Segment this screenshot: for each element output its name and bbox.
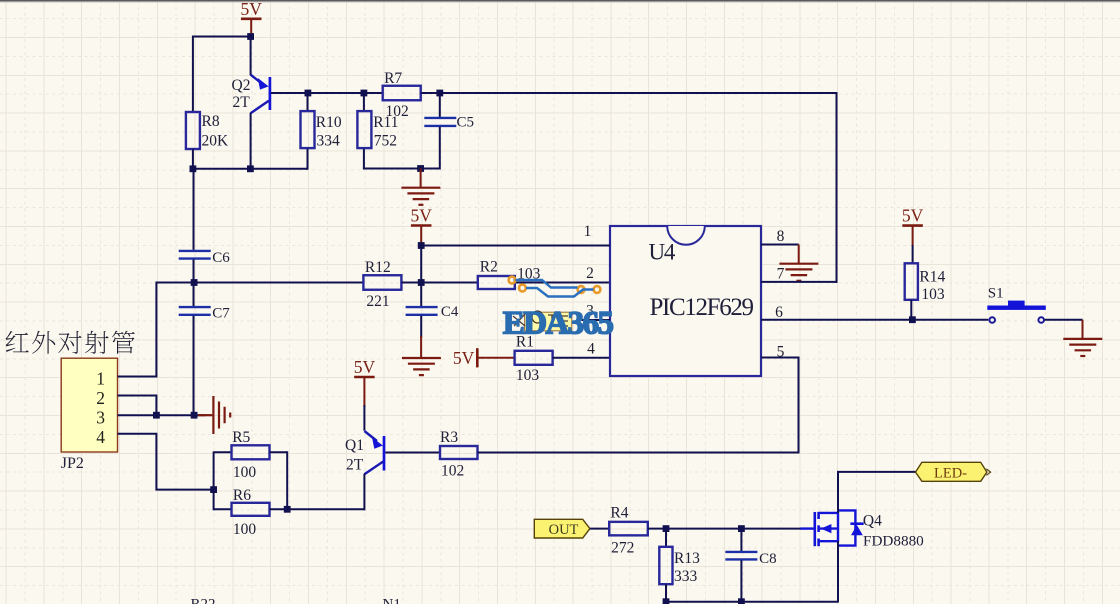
svg-text:5V: 5V [241,0,263,19]
svg-text:334: 334 [317,133,341,150]
node junction R12 R2 C4 [418,279,425,286]
pin 2 label [586,265,594,282]
transistor Q2 [251,37,308,170]
wire R8 top lead [192,36,194,113]
svg-text:Q1: Q1 [345,437,364,454]
svg-text:221: 221 [366,293,389,310]
svg-text:R7: R7 [384,70,402,87]
wire C4 bottom lead [420,316,422,338]
svg-text:R3: R3 [440,429,458,446]
label S1 [988,286,1004,302]
label Q1 [345,437,364,454]
wire C8 top lead [740,529,742,551]
pin 7 label [777,266,785,283]
resistor R11 [357,111,398,150]
wire R2 to U4 pin2 [515,282,610,284]
resistor R14 [905,263,946,303]
resistor R3 [440,429,478,480]
wire R1 to U4 pin4 [552,357,610,359]
svg-text:7: 7 [777,266,785,283]
wire C8 bottom lead [740,560,742,602]
wire R3 right to pin5 riser [478,452,501,454]
svg-text:100: 100 [233,464,257,481]
capacitor C5 [424,115,474,131]
node junction pin2 pin3 [153,412,160,419]
wire R5 right lead [270,451,288,453]
op-amp U4 PIC12F629 [610,226,761,376]
wire bottom rail [666,601,838,603]
wire S1 to ground [1045,319,1083,321]
svg-text:C7: C7 [212,306,230,322]
svg-text:5V: 5V [453,348,475,368]
port OUT [534,519,590,538]
wire right bottom rail [363,168,440,170]
node junction R5R6 left [210,486,217,493]
svg-text:5V: 5V [354,357,376,377]
svg-text:U4: U4 [649,239,676,264]
wire C6 to node [193,260,195,284]
resistor R5 [232,429,270,481]
svg-text:103: 103 [921,286,945,303]
node junction R14 pin6 [909,316,916,323]
wire JP2 pin4 path [118,434,214,490]
svg-text:C5: C5 [457,115,475,131]
svg-text:R5: R5 [232,429,250,446]
port LED- [916,462,991,481]
svg-text:752: 752 [374,133,397,150]
svg-text:2T: 2T [346,457,364,474]
svg-text:R22: R22 [191,596,216,604]
pin 8 label [777,228,785,245]
label Q4 [863,512,882,529]
wire OUT to R4 [590,528,609,530]
wire C5 bottom lead [439,127,441,170]
power 5V supply at R14 [902,206,924,264]
node junction R13 rail [663,598,670,604]
svg-text:C6: C6 [212,250,230,266]
wire pin6 row to S1 [761,319,988,321]
wire R13 bottom lead [665,584,667,602]
svg-text:4: 4 [96,427,105,447]
resistor R10 [301,111,342,150]
wire R6 node to Q1 collector [287,508,365,510]
svg-text:333: 333 [674,568,698,585]
node junction R13 top [663,525,670,532]
svg-text:8: 8 [777,228,785,245]
pin 1 label [584,223,592,240]
svg-text:1: 1 [96,369,105,389]
wire mid vertical 5V to R12 node [420,246,422,283]
node junction Q2 collector rail [247,165,254,172]
resistor R1 [515,334,553,385]
ground earth below R11 C5 rail [401,169,440,205]
label Q4 value FDD8880 [863,533,924,550]
capacitor C8 [725,551,776,567]
label N1 clipped [383,596,401,604]
svg-text:C8: C8 [759,551,777,567]
label JP2 [61,455,84,472]
wire R7 right to loop corner [421,92,838,94]
node junction R6 right [284,506,291,513]
svg-text:JP2: JP2 [61,455,84,472]
resistor R2 [478,259,541,290]
capacitor C6 [179,250,231,266]
wire JP2 pin1 stub [118,376,158,378]
svg-text:FDD8880: FDD8880 [863,533,924,550]
power 5V supply mid [411,206,433,246]
svg-text:R14: R14 [919,268,945,285]
label Q2 [232,77,251,94]
wire R14 bottom lead [910,300,912,321]
switch S1 [987,301,1046,323]
resistor R13 [659,547,700,585]
resistor R4 [609,505,648,557]
svg-text:6: 6 [775,304,783,321]
wire top horizontal R8 to Q2 emitter node [193,36,251,38]
svg-text:R13: R13 [674,550,700,567]
svg-text:LED-: LED- [934,465,967,481]
wire R5R6 left bar [213,452,215,511]
svg-text:R2: R2 [480,259,498,276]
wire C4 top lead [420,283,422,307]
wire R6 right lead [270,508,288,510]
pin 1 stub [582,245,610,247]
svg-text:272: 272 [611,539,634,556]
pin 7 stub wire to loop [761,281,838,283]
node junction C5 top [436,90,443,97]
wire node to R2 [421,282,478,284]
svg-text:N1: N1 [383,596,401,604]
svg-text:R12: R12 [365,259,391,276]
wire R11 top lead [363,93,365,111]
node junction C8 top [738,525,745,532]
wire pin1 row [421,245,610,247]
svg-text:5V: 5V [411,206,433,226]
node junction R8 rail [190,165,197,172]
node junction ground rail [417,165,424,172]
wire JP2 pin3 stub [118,414,206,416]
power 5V supply at Q1 [354,357,376,407]
svg-text:OUT: OUT [549,522,579,538]
node junction R10 top [305,90,312,97]
svg-text:EDA365: EDA365 [503,305,614,341]
transistor Q4 MOSFET [800,510,863,546]
svg-text:2: 2 [586,265,594,282]
wire R12 to node [401,282,421,284]
pin 3 label [586,303,594,320]
wire C6 column upper [193,168,195,250]
ground earth at S1 [1063,320,1102,356]
wire Q4 drain up and to LED- port [838,472,916,513]
capacitor C7 [179,306,231,322]
wire R5 left lead [214,451,232,453]
node junction C8 rail [738,598,745,604]
svg-text:2T: 2T [233,94,251,111]
ground earth below C4 [402,336,441,375]
wire C5 top lead [439,93,441,117]
pin 3 stub [582,319,610,321]
wire R10 bottom lead [306,149,308,169]
node junction 5V pin1 [418,242,425,249]
capacitor C4 [406,304,459,320]
resistor R7 [383,70,421,120]
ground right-facing at pin3 net [198,396,230,434]
wire R6 left lead [214,508,232,510]
wire left bottom rail [192,168,308,170]
resistor R12 [363,259,401,310]
node junction Q2 emitter top [247,33,254,40]
JP2 pin numbers [96,369,105,447]
wire pin1 riser and row to R12 [156,283,363,377]
wire pin5 loop to R3 [478,358,799,453]
wire R5R6 right bar [286,451,288,510]
svg-text:1: 1 [584,223,592,240]
svg-text:C4: C4 [441,304,459,320]
wire R10 top lead [307,93,309,111]
svg-text:R4: R4 [610,505,628,522]
node junction C6 bottom [191,279,198,286]
label R22 clipped [191,596,216,604]
wire base node to R7 [308,92,383,94]
wire Q4 source down [837,541,839,602]
svg-text:S1: S1 [988,286,1004,302]
wire R4 to Q4 gate [648,528,801,530]
svg-text:102: 102 [441,463,464,480]
svg-text:4: 4 [587,341,595,358]
svg-text:3: 3 [96,408,105,428]
svg-text:R6: R6 [233,487,251,504]
wire C7 top lead [193,283,195,307]
title text 红外对射管 [6,331,135,354]
power 5V supply top [241,0,263,37]
wire Q1 emitter vertical [363,405,365,431]
svg-text:R10: R10 [316,114,342,131]
pin 4 label [587,341,595,358]
resistor R6 [232,487,270,538]
pin 8 stub [761,244,799,246]
svg-text:100: 100 [233,521,257,538]
resistor R8 [186,112,229,149]
svg-text:5V: 5V [902,206,924,226]
node junction C7 pin3 [191,412,198,419]
svg-text:R8: R8 [202,113,220,130]
label Q2 value 2T [233,94,251,111]
wire C7 bottom lead [193,316,195,416]
svg-text:20K: 20K [202,132,230,149]
transistor Q1 [364,431,440,510]
node junction R11 top [361,90,368,97]
watermark EDA365 [503,277,614,342]
wire JP2 pin2 stub [118,396,157,416]
wire R8 bottom lead [192,149,194,170]
svg-text:PIC12F629: PIC12F629 [650,294,754,321]
svg-text:2: 2 [96,388,105,408]
svg-text:Q2: Q2 [232,77,251,94]
wire loop right vertical to pin7 [836,92,838,283]
svg-text:102: 102 [386,103,409,120]
connector JP2 [61,358,117,452]
pin 5 label [777,344,785,361]
svg-text:Q4: Q4 [863,512,882,529]
wire R13 top lead [665,529,667,547]
pin 6 label [775,304,783,321]
label Q1 value 2T [346,457,364,474]
power 5V supply right-facing at R1 [453,348,515,368]
ground earth at pin8 [779,245,818,281]
wire R11 bottom lead [363,149,365,170]
svg-text:103: 103 [516,367,540,384]
